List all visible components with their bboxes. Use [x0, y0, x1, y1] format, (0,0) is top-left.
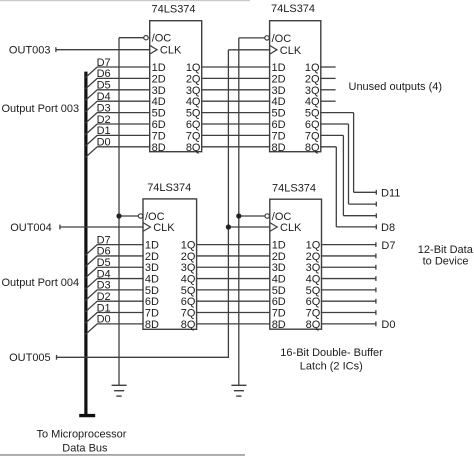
svg-text:5D: 5D: [152, 108, 166, 120]
wire: U4 pin 6Q to D2 device output: [321, 299, 376, 304]
label: 16-Bit Double-Buffer Latch (2 ICs): [280, 347, 383, 372]
wire: U2 pin 5Q to D11 output: [320, 113, 376, 195]
wire: bus branch D4 (port 004) diagonal: [85, 279, 97, 290]
svg-text:OUT005: OUT005: [9, 352, 51, 364]
wire: U3 pin 2Q to U4 pin 2D: [196, 255, 271, 257]
svg-text:D1: D1: [97, 302, 111, 314]
U2 /OC bubble: [265, 36, 269, 40]
wire: bus branch D0 (port 004) diagonal: [85, 324, 97, 335]
wire: U3 pin 5Q to U4 pin 5D: [196, 289, 271, 291]
svg-text:3Q: 3Q: [186, 85, 201, 97]
svg-text:74LS374: 74LS374: [271, 3, 315, 15]
svg-text:5D: 5D: [272, 108, 286, 120]
svg-text:D4: D4: [97, 91, 111, 103]
svg-text:7Q: 7Q: [181, 308, 196, 320]
wire: bus branch D6 (port 004) diagonal: [85, 256, 97, 267]
svg-text:CLK: CLK: [280, 222, 302, 234]
svg-text:D7: D7: [97, 234, 111, 246]
svg-text:2Q: 2Q: [305, 73, 320, 85]
wire: U2 pin 8Q to D8 output: [320, 147, 376, 230]
svg-text:D7: D7: [97, 57, 111, 69]
wire: U4 pin 5Q to D3 device output: [321, 287, 376, 292]
svg-text:4Q: 4Q: [186, 96, 201, 108]
svg-text:D4: D4: [97, 268, 111, 280]
scan artifact: bottom edge band: [0, 454, 245, 456]
wire: bus branch D5 (port 003) diagonal: [85, 90, 97, 101]
ground G2 (output-enable tie): [231, 385, 246, 396]
wire: U1 pin 6Q to U2 pin 6D: [201, 123, 270, 125]
wire: U4 pin 7Q to D1 device output: [321, 310, 376, 315]
svg-text:D3: D3: [97, 280, 111, 292]
wire: U1 pin 8Q to U2 pin 8D: [201, 146, 270, 148]
svg-text:1Q: 1Q: [186, 62, 201, 74]
svg-text:8Q: 8Q: [305, 142, 320, 154]
svg-text:3D: 3D: [152, 85, 166, 97]
wire: U2 pin 7Q to D9 output: [320, 135, 376, 218]
svg-text:4Q: 4Q: [306, 274, 321, 286]
svg-text:6D: 6D: [272, 119, 286, 131]
wire: U3 /OC jog from junction: [119, 215, 138, 217]
svg-text:4D: 4D: [145, 274, 159, 286]
svg-text:Unused outputs (4): Unused outputs (4): [349, 81, 443, 93]
svg-text:3Q: 3Q: [305, 85, 320, 97]
svg-text:4Q: 4Q: [181, 274, 196, 286]
svg-text:D7: D7: [381, 240, 395, 252]
svg-text:74LS374: 74LS374: [272, 182, 316, 194]
ground G1 (output-enable tie): [112, 385, 127, 396]
wire: U1 pin 1Q to U2 pin 1D: [201, 66, 270, 68]
label: To Microprocessor Data Bus: [37, 429, 127, 455]
wire: U1 /OC jog to vertical rail: [119, 38, 144, 385]
data bus rail (microprocessor data bus): [79, 72, 95, 416]
IC U3 74LS374 body: [143, 199, 197, 329]
svg-text:D6: D6: [97, 246, 111, 258]
wire: U4 pin 4Q to D4 device output: [321, 276, 376, 281]
wire: U2 pin 3Q unused output stub: [320, 89, 336, 91]
svg-text:OUT004: OUT004: [10, 222, 52, 234]
U3 /OC bubble: [138, 214, 142, 218]
svg-text:4Q: 4Q: [305, 96, 320, 108]
svg-text:2D: 2D: [152, 73, 166, 85]
svg-text:6D: 6D: [152, 119, 166, 131]
svg-text:5Q: 5Q: [305, 108, 320, 120]
wire: U1 pin 2Q to U2 pin 2D: [201, 77, 270, 79]
wire: D6 (port 004) to U3 pin 2D: [97, 255, 144, 257]
wire: U3 pin 7Q to U4 pin 7D: [196, 312, 271, 314]
svg-text:1Q: 1Q: [305, 62, 320, 74]
svg-text:5D: 5D: [272, 285, 286, 297]
IC U4 74LS374 body: [270, 199, 322, 329]
wire: CLK net to U2 CLK pin: [228, 49, 270, 51]
svg-text:6Q: 6Q: [181, 296, 196, 308]
wire: U1 pin 7Q to U2 pin 7D: [201, 134, 270, 136]
svg-text:3D: 3D: [272, 85, 286, 97]
label: 12-Bit Data to Device: [418, 244, 474, 268]
wire: D7 (port 004) to U3 pin 1D: [97, 244, 144, 246]
svg-text:8Q: 8Q: [181, 319, 196, 331]
U1 /OC bubble: [144, 36, 148, 40]
wire: bus branch D7 (port 003) diagonal: [85, 67, 97, 78]
svg-text:5Q: 5Q: [306, 285, 321, 297]
svg-text:2D: 2D: [145, 251, 159, 263]
wire: bus branch D2 (port 004) diagonal: [85, 301, 97, 312]
wire: D4 (port 003) to U1 pin 4D: [97, 100, 150, 102]
wire: U3 pin 8Q to U4 pin 8D: [196, 323, 271, 325]
junction: OUT005/U4 CLK node: [226, 224, 231, 229]
svg-text:4D: 4D: [272, 274, 286, 286]
svg-text:D2: D2: [97, 291, 111, 303]
svg-text:7Q: 7Q: [305, 130, 320, 142]
wire: D0 (port 003) to U1 pin 8D: [97, 146, 150, 148]
svg-text:3D: 3D: [272, 262, 286, 274]
svg-text:8D: 8D: [272, 142, 286, 154]
svg-text:6D: 6D: [145, 296, 159, 308]
svg-text:OUT003: OUT003: [9, 45, 51, 57]
wire: U2 pin 4Q unused output stub: [320, 100, 336, 102]
svg-text:7D: 7D: [272, 130, 286, 142]
svg-text:8D: 8D: [272, 319, 286, 331]
svg-text:1Q: 1Q: [306, 240, 321, 252]
svg-text:3D: 3D: [145, 262, 159, 274]
wire: bus branch D1 (port 003) diagonal: [85, 135, 97, 146]
svg-text:1D: 1D: [145, 240, 159, 252]
wire: U2 pin 1Q unused output stub: [320, 66, 336, 68]
svg-text:CLK: CLK: [280, 45, 302, 57]
wire: U4 pin 2Q to D6 device output: [321, 254, 376, 259]
wire: D1 (port 003) to U1 pin 7D: [97, 134, 150, 136]
svg-text:D2: D2: [97, 114, 111, 126]
svg-text:7D: 7D: [152, 130, 166, 142]
U3 CLK edge-trigger symbol: [143, 223, 150, 232]
svg-text:D6: D6: [97, 68, 111, 80]
svg-text:D5: D5: [97, 257, 111, 269]
wire: D0 (port 004) to U3 pin 8D: [97, 323, 144, 325]
svg-text:CLK: CLK: [153, 222, 175, 234]
svg-text:2D: 2D: [272, 73, 286, 85]
U2 CLK edge-trigger symbol: [270, 45, 277, 54]
wire: OUT003 strobe to U1 CLK: [56, 47, 150, 52]
svg-text:Data Bus: Data Bus: [62, 443, 108, 455]
wire: U1 pin 3Q to U2 pin 3D: [201, 89, 270, 91]
wire: D1 (port 004) to U3 pin 7D: [97, 312, 144, 314]
wire: U4 pin 1Q to D7 device output: [321, 242, 376, 247]
svg-text:3Q: 3Q: [306, 262, 321, 274]
svg-text:7D: 7D: [272, 308, 286, 320]
wire: U1 pin 5Q to U2 pin 5D: [201, 112, 270, 114]
svg-text:8Q: 8Q: [306, 319, 321, 331]
svg-text:16-Bit Double- Buffer: 16-Bit Double- Buffer: [280, 347, 383, 359]
wire: D2 (port 004) to U3 pin 6D: [97, 300, 144, 302]
wire: bus branch D2 (port 003) diagonal: [85, 124, 97, 135]
wire: bus branch D1 (port 004) diagonal: [85, 313, 97, 324]
svg-text:CLK: CLK: [160, 45, 182, 57]
wire: bus branch D3 (port 003) diagonal: [85, 113, 97, 124]
wire: U3 pin 3Q to U4 pin 3D: [196, 266, 271, 268]
svg-text:7Q: 7Q: [186, 130, 201, 142]
svg-text:1D: 1D: [272, 240, 286, 252]
wire: bus branch D5 (port 004) diagonal: [85, 267, 97, 278]
wire: D7 (port 003) to U1 pin 1D: [97, 66, 150, 68]
svg-text:74LS374: 74LS374: [152, 3, 196, 15]
wire: D6 (port 003) to U1 pin 2D: [97, 77, 150, 79]
wire: U3 pin 6Q to U4 pin 6D: [196, 300, 271, 302]
U1 CLK edge-trigger symbol: [150, 45, 157, 54]
scan artifact: top edge band: [0, 0, 250, 1]
svg-text:1D: 1D: [152, 62, 166, 74]
svg-text:/OC: /OC: [272, 33, 292, 45]
wire: CLK net to U4 CLK pin: [228, 226, 270, 228]
svg-text:6Q: 6Q: [305, 119, 320, 131]
wire: bus branch D4 (port 003) diagonal: [85, 101, 97, 112]
IC U2 74LS374 body: [270, 21, 321, 152]
svg-text:6Q: 6Q: [306, 296, 321, 308]
svg-text:4D: 4D: [272, 96, 286, 108]
svg-text:4D: 4D: [152, 96, 166, 108]
svg-text:2Q: 2Q: [306, 251, 321, 263]
svg-text:Latch (2 ICs): Latch (2 ICs): [300, 360, 363, 372]
svg-text:6D: 6D: [272, 296, 286, 308]
junction: /OC net at U3: [116, 213, 121, 218]
wire: D3 (port 004) to U3 pin 5D: [97, 289, 144, 291]
svg-text:D0: D0: [381, 319, 395, 331]
wire: U1 pin 4Q to U2 pin 4D: [201, 100, 270, 102]
svg-text:7Q: 7Q: [306, 308, 321, 320]
wire: U3 pin 1Q to U4 pin 1D: [196, 244, 271, 246]
wire: D4 (port 004) to U3 pin 4D: [97, 278, 144, 280]
svg-text:D8: D8: [381, 222, 395, 234]
wire: D2 (port 003) to U1 pin 6D: [97, 123, 150, 125]
svg-text:Output Port 003: Output Port 003: [2, 103, 80, 115]
svg-text:1D: 1D: [272, 62, 286, 74]
svg-text:8D: 8D: [145, 319, 159, 331]
wire: OUT004 strobe to U3 CLK: [60, 225, 144, 230]
wire: D5 (port 003) to U1 pin 3D: [97, 89, 150, 91]
wire: U4 pin 8Q to D0 device output: [321, 321, 376, 326]
svg-text:D5: D5: [97, 80, 111, 92]
wire: bus branch D6 (port 003) diagonal: [85, 78, 97, 89]
svg-text:74LS374: 74LS374: [147, 182, 191, 194]
svg-text:5Q: 5Q: [186, 108, 201, 120]
svg-text:2Q: 2Q: [181, 251, 196, 263]
svg-text:D3: D3: [97, 102, 111, 114]
svg-text:D1: D1: [97, 125, 111, 137]
wire: U4 /OC jog from junction: [239, 215, 265, 217]
U4 /OC bubble: [265, 214, 269, 218]
wire: U2 /OC jog to vertical rail: [239, 38, 265, 385]
wire: U2 pin 6Q to D10 output: [320, 124, 376, 207]
wire: D5 (port 004) to U3 pin 3D: [97, 266, 144, 268]
svg-text:7D: 7D: [145, 308, 159, 320]
svg-text:Output Port 004: Output Port 004: [2, 277, 80, 289]
wire: bus branch D7 (port 004) diagonal: [85, 245, 97, 256]
svg-text:8Q: 8Q: [186, 142, 201, 154]
wire: D3 (port 003) to U1 pin 5D: [97, 112, 150, 114]
svg-text:2D: 2D: [272, 251, 286, 263]
wire: bus branch D0 (port 003) diagonal: [85, 147, 97, 158]
junction: /OC net at U4: [236, 213, 241, 218]
wire: U3 pin 4Q to U4 pin 4D: [196, 278, 271, 280]
svg-text:D11: D11: [381, 188, 400, 200]
wire: U2 pin 2Q unused output stub: [320, 77, 336, 79]
svg-text:1Q: 1Q: [181, 240, 196, 252]
wire: bus branch D3 (port 004) diagonal: [85, 290, 97, 301]
U4 CLK edge-trigger symbol: [270, 223, 277, 232]
svg-text:3Q: 3Q: [181, 262, 196, 274]
svg-text:8D: 8D: [152, 142, 166, 154]
svg-text:to Device: to Device: [423, 256, 469, 268]
svg-text:To Microprocessor: To Microprocessor: [37, 429, 127, 441]
svg-text:5Q: 5Q: [181, 285, 196, 297]
svg-text:6Q: 6Q: [186, 119, 201, 131]
svg-text:/OC: /OC: [152, 33, 172, 45]
wire: OUT005 vertical riser to U4/U2 CLK net: [227, 50, 229, 358]
svg-text:D0: D0: [97, 314, 111, 326]
IC U1 74LS374 body: [150, 21, 202, 152]
svg-text:5D: 5D: [145, 285, 159, 297]
wire: U4 pin 3Q to D5 device output: [321, 265, 376, 270]
svg-text:12-Bit Data: 12-Bit Data: [418, 244, 474, 256]
wire: OUT005 strobe horizontal run: [57, 355, 230, 360]
svg-text:D0: D0: [97, 137, 111, 149]
svg-text:2Q: 2Q: [186, 73, 201, 85]
